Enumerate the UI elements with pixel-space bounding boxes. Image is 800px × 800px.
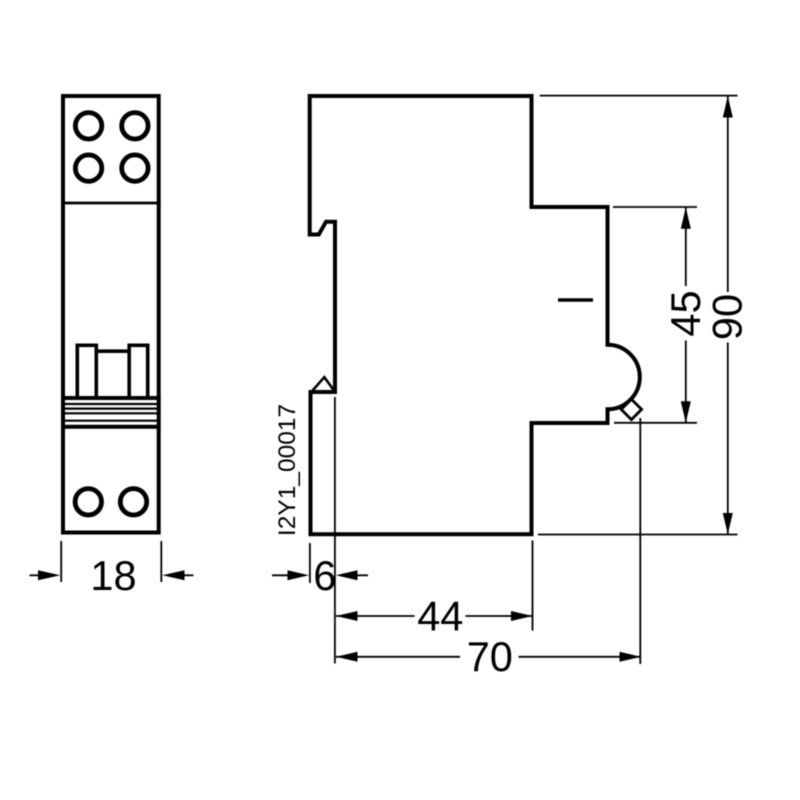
svg-text:44: 44	[417, 592, 463, 639]
svg-text:18: 18	[90, 552, 136, 599]
svg-text:6: 6	[313, 552, 336, 599]
svg-text:90: 90	[704, 294, 751, 340]
svg-text:45: 45	[662, 290, 709, 336]
svg-text:70: 70	[467, 633, 513, 680]
svg-text:I2Y1_00017: I2Y1_00017	[274, 404, 301, 536]
